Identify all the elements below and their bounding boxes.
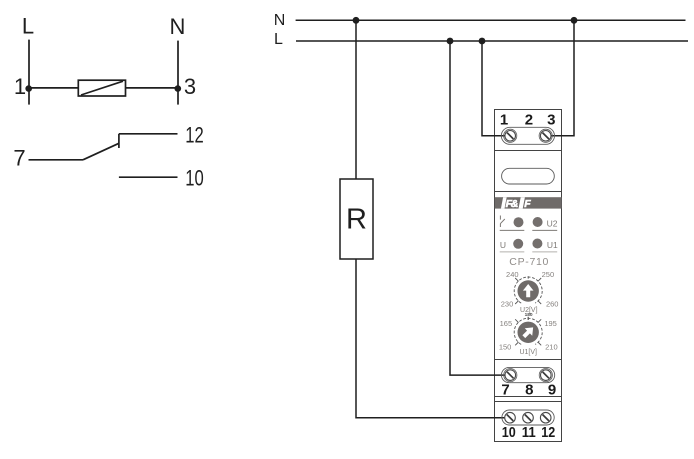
- screw terminal 7: [504, 369, 517, 382]
- divider below terminal block 1-2-3: [494, 150, 562, 152]
- wire N bus to terminal 3: [551, 20, 574, 136]
- underline row 2 left: [500, 251, 525, 253]
- wire terminal 10: [119, 176, 178, 178]
- underline row 1 left: [500, 229, 525, 231]
- knob U1 dashed ring: [514, 318, 542, 344]
- wire N vertical: [177, 41, 179, 105]
- svg-text:7: 7: [13, 146, 25, 171]
- N bus wire: [296, 19, 686, 21]
- screw terminal 9: [539, 369, 552, 382]
- svg-text:12: 12: [541, 424, 555, 441]
- svg-text:&: &: [511, 198, 519, 210]
- svg-text:150: 150: [499, 342, 512, 351]
- wire L bus to terminal 1: [482, 41, 505, 136]
- wire N bus to load R: [355, 20, 357, 179]
- screw terminal 10: [505, 412, 516, 423]
- svg-text:3: 3: [547, 111, 555, 128]
- underline row 2 right: [532, 251, 557, 253]
- svg-text:U: U: [500, 240, 506, 250]
- underline row 1 right: [532, 229, 557, 231]
- svg-text:12: 12: [185, 122, 204, 147]
- coil symbol K1 (box with diagonal): [78, 80, 125, 96]
- svg-text:R: R: [346, 204, 367, 236]
- junction L / terminal 7 branch: [447, 38, 454, 45]
- svg-text:1: 1: [500, 111, 508, 128]
- module body (drawn first so wires stay visible): [495, 110, 562, 442]
- svg-text:230: 230: [501, 300, 514, 309]
- divider above terminal block 10-11-12: [494, 401, 562, 403]
- svg-text:1: 1: [14, 74, 26, 99]
- wire load R to terminal 10: [356, 259, 504, 418]
- svg-text:L: L: [22, 13, 34, 38]
- svg-text:8: 8: [525, 382, 533, 399]
- knob U1 scale labels: [499, 319, 558, 351]
- terminal labels 1 2 3: [500, 111, 556, 128]
- wire from 7: [29, 159, 84, 161]
- svg-text:2: 2: [525, 111, 533, 128]
- svg-text:U1[V]: U1[V]: [519, 349, 537, 356]
- svg-text:10: 10: [502, 424, 516, 441]
- svg-text:U2: U2: [547, 218, 558, 228]
- knob U1 ticks: [515, 317, 541, 346]
- moving contact blade: [83, 143, 119, 160]
- svg-text:CP-710: CP-710: [509, 256, 549, 268]
- svg-text:7: 7: [501, 382, 509, 399]
- wire terminal 12: [119, 133, 178, 135]
- screw terminal 1: [504, 129, 517, 142]
- wire L bus to terminal 7: [450, 41, 505, 375]
- divider below marker window: [494, 191, 562, 193]
- svg-text:N: N: [274, 12, 286, 29]
- svg-text:L: L: [274, 31, 283, 48]
- load resistor R: [340, 179, 373, 259]
- screw terminal 3: [539, 129, 552, 142]
- svg-text:250: 250: [542, 270, 555, 279]
- F&F logo bar: [495, 197, 562, 210]
- svg-text:U1: U1: [547, 240, 558, 250]
- svg-text:3: 3: [184, 74, 196, 99]
- svg-text:260: 260: [546, 300, 559, 309]
- knob U2 ticks: [515, 276, 541, 304]
- knob U1 (arrow up-right): [518, 322, 539, 343]
- wire coil to node 3: [126, 87, 178, 89]
- svg-text:210: 210: [545, 342, 558, 351]
- svg-text:9: 9: [548, 382, 556, 399]
- svg-text:195: 195: [544, 319, 557, 328]
- svg-text:240: 240: [506, 270, 519, 279]
- screw terminal 11: [523, 412, 534, 423]
- wire L vertical: [28, 40, 30, 105]
- knob U2 scale labels: [501, 270, 559, 309]
- svg-text:11: 11: [522, 424, 536, 441]
- junction node 1: [25, 85, 32, 92]
- terminal clamp stadium 10-12: [502, 410, 554, 425]
- terminal clamp stadium 1-3: [501, 127, 554, 144]
- LED relay contact symbol: [500, 216, 505, 228]
- svg-text:165: 165: [500, 319, 513, 328]
- LED row U1: [513, 239, 523, 249]
- svg-text:10: 10: [185, 166, 204, 191]
- knob U2 (arrow up): [518, 280, 539, 301]
- wire node 1 to coil: [29, 87, 79, 89]
- terminal clamp stadium 7-9: [501, 367, 554, 382]
- junction L / terminal 1 branch: [479, 38, 486, 45]
- contact anchor tick: [118, 134, 120, 148]
- terminal labels 7 8 9: [501, 382, 556, 399]
- knob U2 dashed ring: [514, 277, 542, 303]
- L bus wire: [296, 40, 688, 42]
- marker window pill: [502, 168, 555, 184]
- divider above terminal block 7-8-9: [494, 359, 562, 361]
- LED row U2: [514, 217, 524, 227]
- svg-text:N: N: [170, 14, 186, 39]
- junction N / load branch: [353, 17, 360, 24]
- junction node 3: [175, 85, 182, 92]
- screw terminal 12: [540, 412, 551, 423]
- junction N / terminal 3 branch: [571, 17, 578, 24]
- terminal labels 10 11 12: [502, 424, 555, 441]
- svg-text:F: F: [524, 198, 531, 210]
- divider below terminal block 7-8-9: [494, 396, 562, 398]
